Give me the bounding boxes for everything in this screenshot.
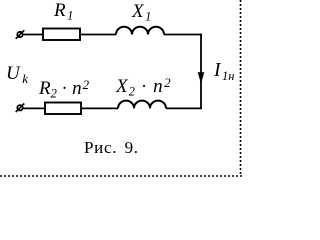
current arrow I1n <box>198 73 204 83</box>
inductor X2n2 <box>118 101 166 109</box>
border dotted bottom <box>0 175 242 177</box>
wire top: X1 to right corner <box>164 34 202 36</box>
wire bottom: X2 to right corner <box>166 107 202 109</box>
wire right vertical <box>200 35 202 109</box>
resistor R2n2 <box>45 103 81 115</box>
svg-text:I1н: I1н <box>213 60 234 83</box>
inductor X1 <box>116 27 164 35</box>
wire top: R1 to X1 <box>80 34 116 36</box>
terminal top-left <box>16 30 25 39</box>
svg-text:Рис. 9.: Рис. 9. <box>84 138 139 157</box>
terminal bottom-left <box>16 104 25 113</box>
svg-text:Uk: Uk <box>6 63 28 86</box>
border dotted right <box>240 0 242 176</box>
wire top: terminal to R1 <box>23 34 43 36</box>
svg-text:R1: R1 <box>53 0 73 23</box>
wire bottom: terminal to R2 <box>23 107 45 109</box>
resistor R1 <box>43 29 80 41</box>
svg-text:X2·n2: X2·n2 <box>115 75 171 99</box>
svg-text:R2·n2: R2·n2 <box>38 77 90 101</box>
wire bottom: R2 to X2 <box>81 107 118 109</box>
svg-text:X1: X1 <box>131 1 151 24</box>
